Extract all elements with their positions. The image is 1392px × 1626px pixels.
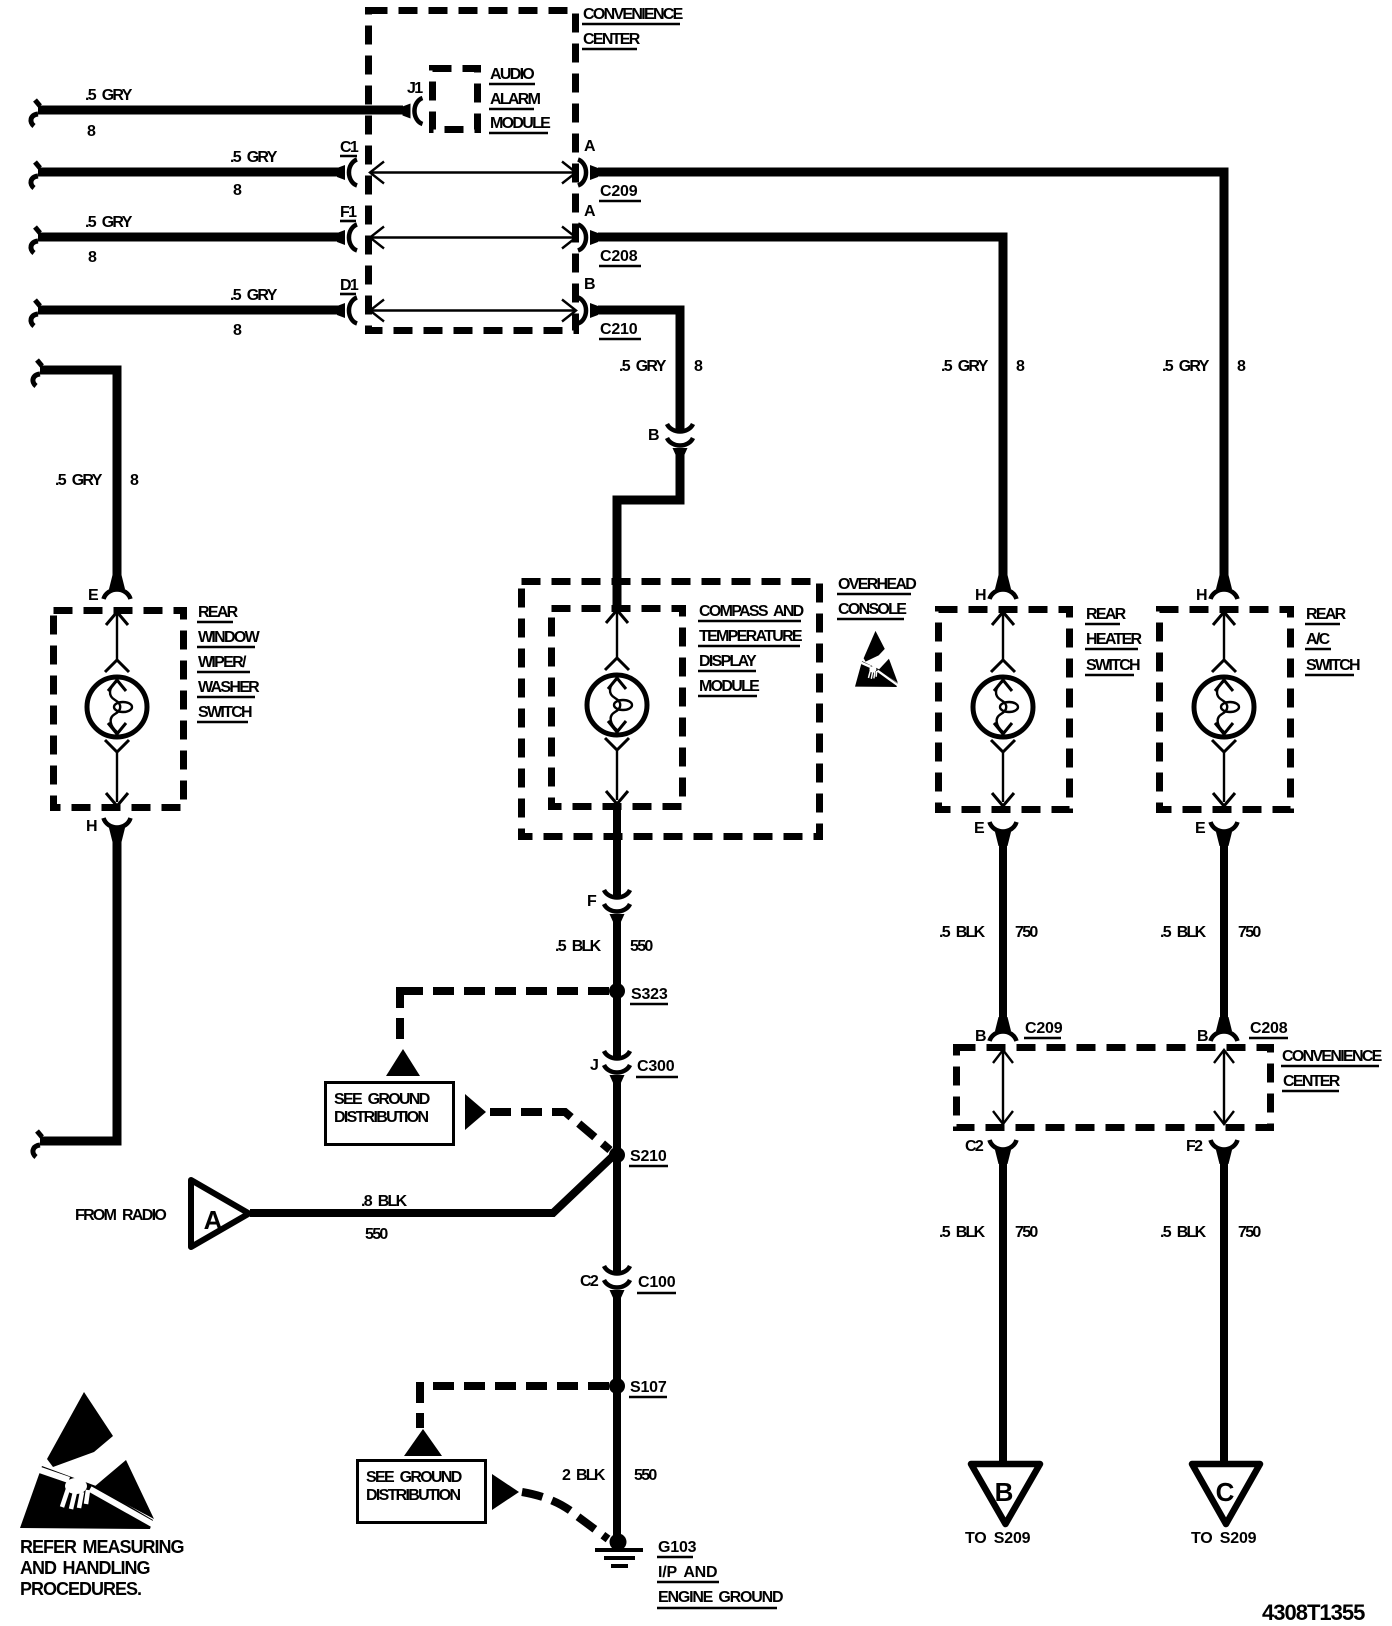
- svg-text:ENGINE GROUND: ENGINE GROUND: [658, 1589, 783, 1606]
- svg-text:550: 550: [630, 938, 653, 955]
- svg-text:.5 GRY: .5 GRY: [230, 149, 278, 166]
- svg-text:2 BLK: 2 BLK: [562, 1467, 606, 1484]
- svg-text:C208: C208: [600, 248, 638, 265]
- svg-text:S107: S107: [630, 1379, 667, 1396]
- svg-text:D1: D1: [340, 277, 359, 294]
- svg-text:.5 GRY: .5 GRY: [941, 358, 989, 375]
- svg-text:SEE GROUND: SEE GROUND: [366, 1469, 462, 1486]
- svg-text:REAR: REAR: [198, 604, 239, 621]
- svg-text:.5 BLK: .5 BLK: [939, 1224, 986, 1241]
- svg-text:I/P AND: I/P AND: [658, 1564, 717, 1581]
- svg-text:S210: S210: [630, 1148, 667, 1165]
- svg-text:ALARM: ALARM: [490, 91, 541, 108]
- svg-text:B: B: [975, 1028, 986, 1045]
- svg-text:4308T1355: 4308T1355: [1262, 1600, 1365, 1625]
- svg-text:MODULE: MODULE: [490, 115, 551, 132]
- svg-text:H: H: [86, 818, 97, 835]
- svg-text:C209: C209: [1025, 1020, 1063, 1037]
- svg-text:HEATER: HEATER: [1086, 631, 1143, 648]
- svg-text:FROM RADIO: FROM RADIO: [75, 1207, 166, 1224]
- svg-text:B: B: [995, 1477, 1014, 1507]
- svg-text:CONSOLE: CONSOLE: [838, 601, 907, 618]
- svg-text:TEMPERATURE: TEMPERATURE: [699, 628, 803, 645]
- svg-text:B: B: [584, 276, 595, 293]
- svg-text:H: H: [1196, 587, 1207, 604]
- svg-text:WASHER: WASHER: [198, 679, 260, 696]
- svg-text:.5 BLK: .5 BLK: [1160, 1224, 1207, 1241]
- svg-text:F2: F2: [1186, 1138, 1203, 1155]
- svg-text:C2: C2: [580, 1273, 599, 1290]
- svg-text:COMPASS AND: COMPASS AND: [699, 603, 804, 620]
- svg-text:750: 750: [1015, 1224, 1038, 1241]
- svg-text:SWITCH: SWITCH: [1306, 657, 1360, 674]
- svg-text:C210: C210: [600, 321, 638, 338]
- svg-text:CONVENIENCE: CONVENIENCE: [1282, 1048, 1383, 1065]
- svg-text:B: B: [648, 427, 659, 444]
- svg-text:.5 GRY: .5 GRY: [1162, 358, 1210, 375]
- svg-text:DISTRIBUTION: DISTRIBUTION: [366, 1487, 461, 1504]
- svg-text:DISTRIBUTION: DISTRIBUTION: [334, 1109, 429, 1126]
- svg-text:WIPER/: WIPER/: [198, 654, 247, 671]
- svg-text:.5 GRY: .5 GRY: [85, 87, 133, 104]
- svg-text:CONVENIENCE: CONVENIENCE: [583, 6, 684, 23]
- svg-text:A: A: [204, 1205, 223, 1235]
- svg-text:AUDIO: AUDIO: [490, 66, 534, 83]
- svg-text:CENTER: CENTER: [1283, 1073, 1341, 1090]
- svg-text:SWITCH: SWITCH: [1086, 657, 1140, 674]
- svg-text:G103: G103: [658, 1539, 697, 1556]
- svg-text:750: 750: [1238, 924, 1261, 941]
- svg-text:C1: C1: [340, 139, 359, 156]
- svg-text:J: J: [590, 1057, 598, 1074]
- svg-text:.5 GRY: .5 GRY: [619, 358, 667, 375]
- svg-text:TO S209: TO S209: [965, 1530, 1031, 1547]
- svg-text:PROCEDURES.: PROCEDURES.: [20, 1579, 141, 1599]
- svg-text:C209: C209: [600, 183, 638, 200]
- svg-text:DISPLAY: DISPLAY: [699, 653, 757, 670]
- svg-text:CENTER: CENTER: [583, 31, 641, 48]
- svg-text:S323: S323: [631, 986, 668, 1003]
- svg-text:750: 750: [1015, 924, 1038, 941]
- svg-text:C2: C2: [965, 1138, 984, 1155]
- svg-text:WINDOW: WINDOW: [198, 629, 261, 646]
- svg-text:SEE GROUND: SEE GROUND: [334, 1091, 430, 1108]
- svg-text:AND HANDLING: AND HANDLING: [20, 1558, 150, 1578]
- svg-text:550: 550: [365, 1226, 388, 1243]
- svg-text:F1: F1: [340, 204, 357, 221]
- svg-text:H: H: [975, 587, 986, 604]
- svg-text:SWITCH: SWITCH: [198, 704, 252, 721]
- svg-text:.5 BLK: .5 BLK: [939, 924, 986, 941]
- svg-text:.5 BLK: .5 BLK: [1160, 924, 1207, 941]
- svg-text:.5 GRY: .5 GRY: [230, 287, 278, 304]
- svg-text:B: B: [1197, 1028, 1208, 1045]
- svg-text:REAR: REAR: [1306, 606, 1347, 623]
- svg-text:REFER MEASURING: REFER MEASURING: [20, 1537, 184, 1557]
- svg-text:.8 BLK: .8 BLK: [361, 1193, 408, 1210]
- svg-text:OVERHEAD: OVERHEAD: [838, 576, 916, 593]
- svg-text:MODULE: MODULE: [699, 678, 760, 695]
- svg-text:A/C: A/C: [1306, 631, 1331, 648]
- svg-text:.5 GRY: .5 GRY: [85, 214, 133, 231]
- svg-text:TO S209: TO S209: [1191, 1530, 1257, 1547]
- svg-text:C: C: [1216, 1477, 1235, 1507]
- svg-text:550: 550: [634, 1467, 657, 1484]
- svg-text:.5 GRY: .5 GRY: [55, 472, 103, 489]
- svg-text:C100: C100: [638, 1274, 676, 1291]
- svg-text:750: 750: [1238, 1224, 1261, 1241]
- svg-text:.5 BLK: .5 BLK: [555, 938, 602, 955]
- svg-text:REAR: REAR: [1086, 606, 1127, 623]
- svg-text:C208: C208: [1250, 1020, 1288, 1037]
- svg-text:J1: J1: [407, 80, 423, 97]
- svg-text:C300: C300: [637, 1058, 675, 1075]
